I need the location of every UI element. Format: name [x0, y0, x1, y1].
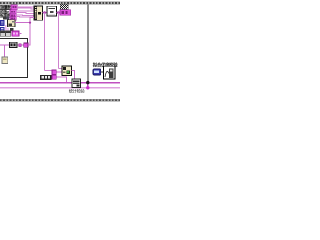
wire pink lower down: [56, 77, 66, 82]
magenta constant box: [12, 31, 19, 36]
control label 2: [0, 9, 10, 14]
wire fan 6: [16, 16, 34, 18]
wire E out: [72, 70, 75, 82]
junction dot: [57, 11, 60, 14]
long wire bus 2: [0, 87, 120, 89]
junction dot: [29, 22, 31, 24]
wire fan 3: [16, 10, 34, 12]
junction dot: [43, 11, 46, 14]
small pink vertical: [5, 25, 7, 30]
subVI icon H: [104, 66, 116, 79]
wire vertical B elbow: [58, 68, 62, 70]
index array icon E: [62, 66, 72, 76]
enum constant blue: [93, 69, 101, 75]
cluster node 4: [10, 17, 16, 21]
wire fan 2: [17, 8, 34, 9]
wire bundle out: [43, 12, 47, 14]
cluster node 2: [10, 10, 16, 14]
loop tunnel: [24, 43, 28, 47]
wire inside loop: [0, 44, 24, 46]
array constant F: [40, 75, 52, 80]
icon row 2: [6, 31, 11, 36]
while loop border: [0, 38, 28, 77]
wire long vertical A: [44, 13, 46, 71]
cluster node 3: [10, 14, 16, 18]
pink terminal upper: [52, 70, 56, 74]
function icon C: [10, 42, 18, 47]
junction dot black: [86, 81, 89, 84]
small icon dark top: [10, 28, 13, 31]
bundle node: [34, 6, 43, 20]
control label 1: [0, 5, 14, 10]
wire long vertical B: [57, 13, 59, 69]
subVI icon B: [8, 20, 15, 27]
sequence frame top film border: [0, 2, 120, 4]
wire loop tunnel riser: [30, 17, 34, 45]
numeric constant blue 1: [0, 20, 4, 26]
subVI icon A: [47, 6, 57, 16]
wire fan 4: [16, 12, 34, 15]
cluster node 1: [11, 5, 17, 10]
wire fan 1: [17, 6, 34, 8]
icon row 1: [0, 31, 5, 36]
control label 3: [0, 13, 11, 18]
sequence frame bottom film border: [0, 99, 120, 101]
wire fan 5: [16, 14, 34, 16]
pink cluster constant: [60, 10, 71, 16]
small wire bits: [5, 28, 9, 30]
sequence frame divider: [87, 4, 89, 84]
small tan box: [2, 57, 8, 63]
wire vertical A elbow: [45, 70, 52, 72]
junction dot magenta: [86, 86, 89, 89]
junction dot F: [73, 81, 75, 83]
coercion bead: [19, 44, 21, 47]
long wire bus 1: [0, 82, 120, 84]
array checker icon: [60, 4, 68, 9]
numeric constant blue 2: [0, 27, 4, 31]
svg-text:统计检验: 统计检验: [69, 87, 86, 94]
small terminal block: [3, 16, 9, 19]
wire iconA out: [57, 12, 60, 14]
wire stub: [19, 33, 22, 35]
wire iconB out: [15, 22, 30, 24]
wire local riser: [4, 45, 6, 57]
wire tunnel out: [28, 44, 31, 46]
statistic icon G: [72, 79, 81, 88]
wire enum to H: [101, 71, 104, 73]
wire pink upper to E: [56, 71, 62, 73]
bus connector: [87, 83, 89, 88]
pink terminal lower: [52, 75, 56, 79]
